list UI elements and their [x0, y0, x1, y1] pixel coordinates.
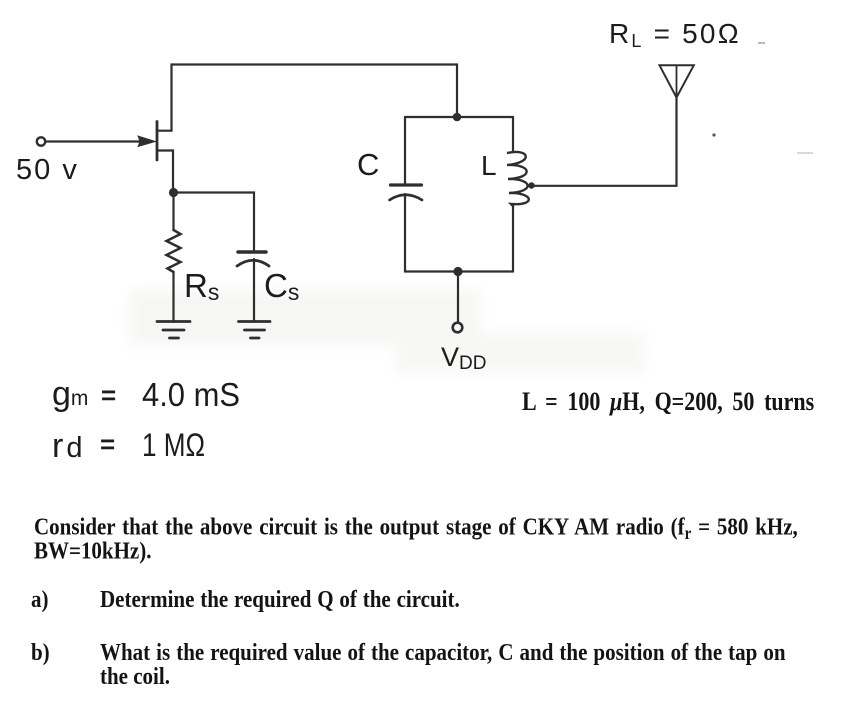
wire VDD — [457, 273, 459, 322]
wire Rs to ground — [172, 272, 174, 322]
wire node to Rs — [172, 194, 174, 230]
capacitor Cs — [238, 250, 266, 253]
wire tank right lower — [512, 204, 514, 272]
svg-text:What is the required value of: What is the required value of the capaci… — [100, 638, 786, 665]
node source junction — [169, 188, 178, 197]
svg-text:1 MΩ: 1 MΩ — [142, 427, 205, 463]
resistor Rs zigzag — [167, 230, 181, 272]
wire drain up — [172, 65, 458, 131]
speck artifact — [712, 133, 715, 136]
svg-text:L = 100 μH, Q=200, 50 turns: L = 100 μH, Q=200, 50 turns — [522, 388, 814, 416]
svg-text:=: = — [101, 380, 116, 410]
speck artifact — [758, 42, 765, 44]
wire tank bottom — [405, 270, 513, 272]
wire node to Cs — [175, 193, 254, 251]
gate arrowhead — [137, 135, 157, 147]
terminal VDD circle — [453, 323, 463, 333]
svg-text:4.0 mS: 4.0 mS — [142, 376, 240, 413]
svg-text:BW=10kHz).: BW=10kHz). — [34, 537, 151, 564]
wire gate input — [46, 140, 141, 142]
speck artifact — [797, 152, 813, 154]
wire tank right upper — [512, 117, 514, 152]
svg-text:=: = — [100, 429, 115, 459]
node coil tap — [528, 182, 534, 188]
ground Cs — [239, 322, 271, 339]
svg-text:L: L — [481, 150, 497, 181]
svg-text:50 v: 50 v — [16, 154, 79, 186]
node tank top — [453, 113, 462, 122]
transistor Q1 source stub — [157, 151, 173, 191]
transistor Q1 drain stub — [157, 130, 172, 132]
wire tank top — [405, 116, 513, 118]
svg-text:rd: rd — [52, 427, 85, 465]
wire Cs to ground — [253, 259, 255, 322]
svg-text:a): a) — [31, 585, 48, 612]
svg-text:b): b) — [31, 638, 50, 665]
svg-text:C: C — [357, 147, 379, 182]
input terminal circle — [37, 137, 45, 145]
svg-text:the coil.: the coil. — [100, 662, 170, 689]
transistor Q1 gate bar — [156, 122, 159, 161]
capacitor C — [391, 183, 422, 186]
svg-text:RL = 50Ω: RL = 50Ω — [609, 18, 741, 51]
svg-text:Determine the required Q of th: Determine the required Q of the circuit. — [100, 585, 460, 612]
inductor L coil — [507, 152, 529, 206]
wire tank left lower — [404, 194, 406, 272]
wire tap to antenna — [534, 98, 677, 186]
node tank bottom — [453, 267, 462, 276]
antenna RL — [660, 65, 694, 97]
wire tank left upper — [404, 117, 406, 183]
ground Rs — [157, 322, 190, 339]
